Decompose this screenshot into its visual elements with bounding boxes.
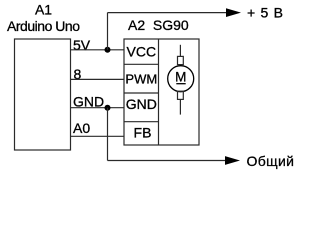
wire vertical 5V node to +5V rail [107, 13, 109, 50]
svg-text:PWM: PWM [125, 72, 157, 87]
arrow +5V [226, 8, 241, 17]
svg-text:Arduino Uno: Arduino Uno [7, 18, 80, 34]
svg-text:VCC: VCC [127, 44, 157, 60]
wire common rail horizontal [108, 160, 229, 162]
junction dot 5V node [105, 47, 111, 53]
arrow Obshchiy [225, 156, 240, 165]
svg-text:FB: FB [134, 125, 152, 141]
svg-text:M: M [175, 69, 186, 84]
wire 5V from A1 to VCC [71, 49, 125, 51]
wire A0 from A1 to FB [71, 135, 125, 137]
module A1 Arduino Uno body [15, 39, 71, 150]
svg-text:GND: GND [126, 96, 157, 112]
motor bottom terminal [178, 91, 184, 99]
wire vertical GND node to common rail [107, 108, 109, 161]
module A2 SG90 body [124, 39, 199, 145]
wire GND from A1 to GND [71, 107, 125, 109]
motor top terminal [178, 56, 184, 64]
pin column divider [158, 39, 160, 145]
junction dot GND node [105, 105, 111, 111]
svg-text:+ 5 В: + 5 В [247, 5, 283, 21]
motor bottom lead wire [179, 99, 181, 114]
svg-text:A1: A1 [35, 2, 52, 18]
svg-text:A2 SG90: A2 SG90 [128, 17, 189, 33]
wire 8 from A1 to PWM [71, 78, 125, 80]
pin cell divider GND/FB [124, 121, 159, 123]
wire +5V rail horizontal [108, 12, 229, 14]
motor M underline [176, 83, 185, 85]
svg-text:A0: A0 [73, 120, 90, 136]
pin cell divider PWM/GND [124, 92, 159, 94]
svg-text:Общий: Общий [247, 153, 295, 169]
svg-text:5V: 5V [73, 37, 91, 53]
motor top lead wire [179, 45, 181, 57]
pin cell divider VCC/PWM [124, 63, 159, 65]
motor M1 circle [168, 66, 194, 92]
